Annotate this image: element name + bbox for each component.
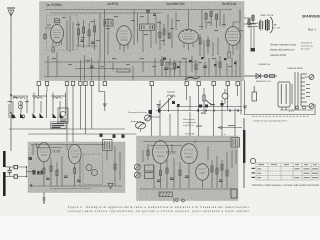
capacitor marks cluster	[81, 40, 95, 44]
plug wires	[305, 74, 309, 106]
table dotted leader rows	[257, 169, 300, 178]
output box winding	[233, 139, 238, 146]
left panel dashed enclosure	[83, 154, 102, 185]
left panel component sticks	[33, 143, 120, 186]
dial cord bar	[243, 118, 245, 188]
TR4 internal dashes	[185, 150, 194, 157]
left panel coil box	[103, 140, 113, 151]
power transformer core and secondary	[292, 72, 305, 110]
series capacitor between bars	[8, 167, 13, 176]
left panel top wires	[31, 145, 105, 148]
tiny labels lower	[196, 125, 235, 127]
coupling capacitor under speaker	[251, 48, 256, 52]
small dark blobs row	[163, 57, 237, 68]
scattered value labels	[47, 16, 243, 67]
crossing wire squiggle	[206, 100, 214, 105]
ground at midsection	[243, 106, 247, 109]
power transformer primary	[278, 82, 290, 107]
phono switch wafer circle	[60, 111, 65, 116]
trimmer knobs on gang bus	[100, 134, 125, 138]
long dropper resistor in panel	[117, 69, 130, 72]
long return wire	[244, 104, 315, 115]
AGC resistor cluster between V1 and V2	[76, 19, 97, 50]
dashed separator under transformer	[252, 116, 310, 118]
heater wires bottom of transformer	[280, 106, 313, 110]
lower panel component row	[48, 10, 240, 81]
smoothing cap C50	[252, 86, 257, 101]
dark component right panel corner	[231, 189, 237, 198]
coil L1 core	[55, 20, 59, 22]
transistor TR3 (right panel)	[153, 141, 169, 164]
aerial input wires	[6, 167, 33, 177]
tuning gang link bus upper	[9, 128, 125, 130]
midsection wires	[156, 96, 242, 136]
note box text	[52, 123, 65, 128]
right panel coupling box upper	[145, 165, 154, 171]
marks below right panel	[174, 198, 184, 204]
paper noise over main panel	[40, 2, 245, 81]
tube V1 converter	[51, 25, 64, 43]
V2 grid dashes	[120, 31, 129, 40]
pick-up contact dashes	[131, 121, 141, 123]
aerial unit labels	[8, 97, 30, 102]
V1 grid dashes	[53, 30, 61, 38]
wires around IF2	[134, 10, 164, 53]
right panel resistor cluster	[211, 152, 228, 188]
transistor TR4 (right panel)	[181, 144, 197, 164]
panel corner dark mark	[29, 157, 33, 160]
volume potentiometer arrow	[161, 96, 173, 108]
plug lower arrow	[310, 104, 314, 108]
transistor TR1 (left panel)	[38, 143, 51, 162]
V3 pins	[184, 43, 193, 51]
V4 cathode resistor	[228, 52, 230, 58]
right panel bottom bus	[140, 188, 236, 190]
V4 grid dashes	[228, 32, 238, 41]
panel lower bus 1	[44, 61, 196, 63]
output transformer	[259, 20, 263, 31]
antenna label	[7, 7, 15, 9]
TR2 internal dashes	[71, 151, 79, 157]
aerial coupling windings	[19, 102, 23, 110]
tone switch box in panel	[168, 64, 176, 69]
mains plug upper	[309, 75, 314, 80]
oscillator coil box L1	[55, 19, 60, 23]
1st IF internals	[106, 21, 112, 25]
mains rectifier cluster	[244, 74, 277, 79]
enclosure transistor a	[86, 165, 92, 171]
drop wires from panel terminals	[39, 81, 238, 143]
volume control cluster	[199, 34, 218, 58]
left panel bottom bus	[30, 185, 122, 187]
dial pulley	[250, 158, 255, 163]
right panel output transformer box	[231, 138, 240, 148]
TR1 internal dashes	[40, 149, 48, 155]
tuning gang link bus lower	[28, 133, 137, 135]
label under component	[201, 113, 206, 114]
tap value labels	[306, 84, 310, 97]
right panel component sticks	[143, 140, 236, 188]
top bus wire 1	[45, 9, 232, 11]
nota text block	[183, 119, 197, 127]
paper noise over left bottom panel	[28, 142, 125, 193]
transistor TR2 (left panel)	[68, 144, 81, 163]
table: trimmer alignment data	[256, 163, 319, 180]
pick-up lower arrow	[138, 123, 144, 128]
pick-up jack lower	[136, 122, 146, 129]
mains plug lower	[309, 104, 314, 109]
wires down panel right	[241, 81, 245, 115]
tube V2 IF amplifier	[117, 26, 132, 46]
470 value label	[210, 104, 215, 105]
detector diode load cluster	[168, 12, 176, 48]
1st IF transformer box	[104, 20, 113, 27]
panel lower bus 2	[44, 76, 242, 78]
midsection choke coil	[167, 92, 175, 97]
aerial terminal upper	[14, 165, 18, 168]
lower strip extra components right half	[161, 56, 236, 81]
left panel caps	[46, 176, 81, 182]
transistor TR5 (right panel lower)	[196, 164, 209, 180]
note text block: measured voltages	[270, 43, 297, 57]
right panel coupling box lower	[145, 173, 154, 179]
plug marks	[43, 198, 46, 203]
tube V3 detector (wide envelope)	[179, 30, 199, 44]
paper noise over right bottom panel	[137, 136, 239, 201]
IF trimmer marks	[142, 26, 153, 30]
TR3 internal dashes	[156, 148, 165, 156]
midsection dark component pair	[149, 105, 209, 115]
speaker feed wires	[247, 23, 258, 48]
ticks on lower wire	[198, 109, 238, 112]
antenna	[8, 10, 14, 16]
dropper hatching	[159, 192, 170, 197]
screen bypass lines right of V1	[67, 16, 73, 52]
midsection wire with resistor	[203, 88, 205, 112]
phono switch contacts	[60, 119, 66, 121]
midsection dark blobs	[172, 101, 224, 107]
right jack B arrow	[135, 173, 140, 177]
mid bus wire	[75, 68, 117, 70]
earth bar lower	[3, 172, 6, 196]
V3 grid dashes	[182, 34, 195, 39]
note box (cambio tensione)	[51, 122, 67, 128]
V2 pins	[120, 44, 128, 52]
aerial terminal lower	[14, 175, 18, 178]
oscillator trimmer blobs	[53, 113, 64, 118]
grid capacitor cluster left of V1	[44, 28, 51, 40]
aerial trimmer blobs	[12, 113, 24, 118]
pick-up wires	[141, 117, 161, 132]
enclosure transistor b	[92, 170, 98, 176]
V4 pins	[229, 45, 237, 56]
aerial coil unit (leftmost)	[9, 96, 28, 118]
main chassis panel (AM/FM tuner + IF section, shaded)	[40, 2, 245, 81]
V3 plate wire up	[188, 10, 190, 30]
plug upper arrow	[310, 75, 314, 79]
earth bar upper	[3, 151, 6, 167]
V4 plate wire to top	[233, 10, 240, 27]
table row label marks	[252, 168, 256, 178]
coil box winding	[105, 141, 110, 149]
wire below left panel to plug	[43, 193, 45, 204]
resistor sticks mid	[159, 29, 170, 39]
top bus wire 2	[50, 12, 162, 14]
2nd IF transformer box with trimmers	[140, 24, 155, 30]
junction dots	[26, 166, 27, 167]
bottom-right shaded panel (output stage detail)	[137, 136, 239, 201]
speaker voice coil bars	[266, 19, 270, 31]
phono switch box	[58, 108, 68, 123]
coupling network above V4	[202, 10, 224, 31]
aerial trimmer circles	[11, 115, 14, 118]
TR5 internal dashes	[199, 169, 207, 173]
pick-up jack arrow	[145, 115, 151, 120]
padder caps above IF2	[146, 11, 156, 16]
left panel ground triangle	[108, 184, 113, 189]
V1 cathode resistor	[52, 47, 54, 52]
loudspeaker cone brace	[270, 17, 273, 33]
junction dots on antenna lead	[10, 94, 12, 96]
dial cord thick segment	[243, 130, 245, 163]
right panel caps	[157, 176, 223, 182]
right panel input jack B	[134, 172, 140, 178]
divider network left of speaker	[244, 14, 256, 28]
electrolytic capacitor	[222, 93, 228, 99]
right jack A arrow	[135, 165, 140, 169]
mixer trimmer blobs	[33, 113, 44, 118]
table header smudges	[258, 164, 317, 165]
input coil cluster at panel edge	[33, 170, 43, 175]
right panel input jack A	[134, 164, 140, 170]
ground under volume wire	[103, 104, 107, 107]
oscillator coil unit (right)	[51, 93, 66, 114]
V3 top cap marks	[182, 30, 192, 33]
right panel top wires	[143, 142, 231, 146]
V1 pins	[53, 40, 62, 47]
antenna lead-in wire	[10, 16, 12, 151]
ground right of pick-up	[157, 105, 161, 108]
tube V4 output pentode	[226, 27, 241, 46]
wire column to V2	[100, 10, 108, 65]
table right column marks	[258, 168, 319, 178]
small caps bottom row	[90, 66, 207, 70]
lower-left ground stub	[30, 185, 33, 188]
arrow line lower	[218, 126, 242, 129]
pick-up jack upper	[145, 115, 151, 121]
mixer coil unit (middle)	[32, 93, 47, 119]
bottom-left shaded panel (AF amplifier detail)	[28, 142, 125, 193]
electrolytic wires	[224, 89, 226, 104]
midsection resistor on wire	[203, 95, 205, 101]
AF unit dotted enclosure	[47, 15, 78, 50]
dark wiring squiggle	[185, 76, 200, 80]
terminal lugs under panel	[37, 82, 239, 86]
hatched dropper resistor below right panel	[159, 192, 172, 197]
